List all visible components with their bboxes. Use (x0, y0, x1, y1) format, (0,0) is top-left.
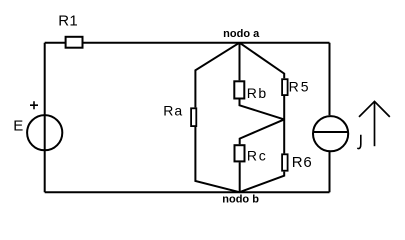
resistor Ra (191, 108, 196, 126)
resistor R5 (282, 79, 288, 95)
polarity plus sign (30, 101, 38, 109)
wire (195, 127, 239, 192)
wire (329, 43, 331, 193)
svg-text:R6: R6 (292, 154, 313, 171)
svg-text:nodo a: nodo a (223, 28, 260, 40)
wire (240, 119, 285, 144)
voltage source E (27, 115, 62, 150)
wire (239, 162, 241, 192)
resistor Rc (235, 145, 245, 161)
svg-text:R1: R1 (58, 13, 78, 30)
wire (240, 172, 285, 193)
svg-text:Rc: Rc (247, 148, 268, 164)
wire (240, 100, 285, 120)
svg-text:nodo b: nodo b (222, 194, 259, 206)
wire (45, 42, 330, 44)
wire (195, 43, 239, 108)
svg-text:E: E (13, 117, 23, 134)
wire (44, 43, 46, 193)
wire (283, 96, 285, 154)
current source J (313, 116, 348, 151)
resistor Rb (234, 81, 244, 98)
svg-text:Ra: Ra (163, 103, 183, 119)
wire (239, 43, 241, 81)
resistor R6 (282, 154, 288, 170)
resistor R1 (66, 37, 83, 48)
wire (45, 191, 330, 193)
current direction arrow (359, 101, 390, 146)
svg-text:R5: R5 (289, 79, 311, 95)
svg-text:Rb: Rb (247, 85, 268, 101)
wire (240, 43, 285, 79)
label J (358, 135, 361, 149)
